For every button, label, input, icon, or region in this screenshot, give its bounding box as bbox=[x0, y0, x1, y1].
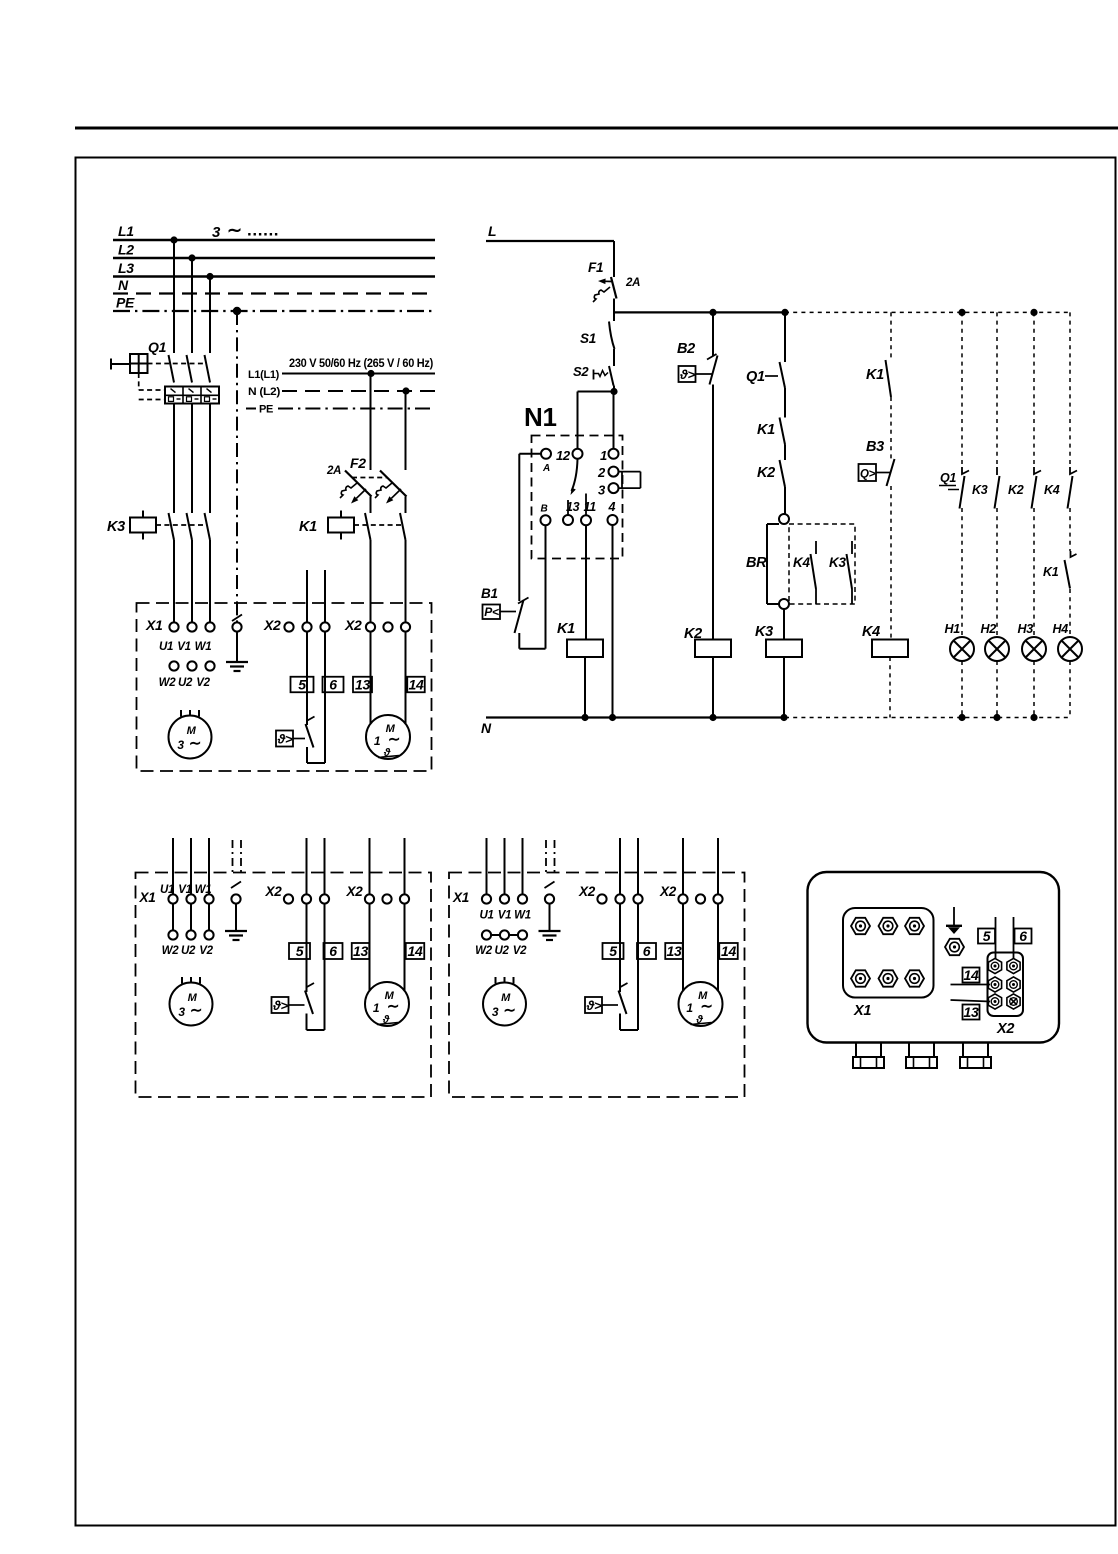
X2b terminals bbox=[365, 894, 374, 903]
svg-text:H2: H2 bbox=[981, 622, 997, 636]
svg-text:13: 13 bbox=[355, 677, 370, 693]
brake BR loop bbox=[746, 524, 779, 604]
motor M 3~ bbox=[483, 977, 526, 1026]
svg-text:5: 5 bbox=[296, 943, 304, 959]
stub wires X2 bbox=[306, 838, 308, 895]
motor connection box (dashed) bbox=[137, 603, 432, 771]
svg-text:U2: U2 bbox=[181, 945, 196, 957]
stub wire X2-5 bbox=[306, 570, 308, 623]
svg-text:∼: ∼ bbox=[700, 998, 712, 1015]
contactor K1 coil+poles bbox=[299, 511, 406, 541]
svg-text:N: N bbox=[481, 720, 492, 736]
svg-text:A: A bbox=[542, 463, 550, 474]
N1 contact 11 stub bbox=[585, 494, 587, 516]
wire pole1 to K3 bbox=[173, 404, 175, 514]
marker 13 bbox=[352, 943, 370, 959]
aux contact Q1 bbox=[746, 362, 785, 388]
node L1(L1) tap bbox=[367, 370, 374, 377]
svg-text:V1: V1 bbox=[498, 910, 511, 922]
wire BR to K3 coil bbox=[783, 609, 785, 640]
svg-text:6: 6 bbox=[1019, 928, 1027, 944]
svg-text:S1: S1 bbox=[580, 331, 596, 346]
X1 PE terminal bbox=[545, 894, 554, 903]
wire pole2 to K3 bbox=[191, 404, 193, 514]
svg-text:N (L2): N (L2) bbox=[248, 386, 281, 398]
svg-text:14: 14 bbox=[964, 967, 979, 983]
svg-text:L3: L3 bbox=[118, 260, 134, 276]
PE isolating tick bbox=[232, 615, 242, 622]
svg-text:K1: K1 bbox=[1043, 565, 1059, 579]
node K1/N bbox=[581, 714, 588, 721]
node H2/N bbox=[993, 714, 1000, 721]
relay coil K4 bbox=[862, 624, 908, 657]
relay coil K3 bbox=[755, 624, 802, 657]
svg-text:H3: H3 bbox=[1018, 622, 1034, 636]
cable gland at 921.5 bbox=[906, 1043, 937, 1069]
svg-text:K3: K3 bbox=[107, 519, 125, 535]
wire to F2 pole2 bbox=[405, 391, 407, 470]
wire S2 to node bbox=[613, 386, 615, 392]
breaker F2 pole 2 bbox=[375, 471, 407, 504]
marker 5 bbox=[603, 943, 624, 959]
svg-text:V2: V2 bbox=[196, 677, 210, 689]
wire S1-S2 bbox=[613, 349, 615, 366]
wire to motor M2 left bbox=[370, 632, 372, 724]
wire S2 to N1:1 bbox=[613, 392, 615, 450]
svg-text:P<: P< bbox=[484, 605, 499, 619]
svg-text:H4: H4 bbox=[1053, 622, 1069, 636]
wire 6 bbox=[1013, 917, 1015, 962]
wire B3 to K4 coil (dashed) bbox=[890, 486, 892, 640]
wire L2 drop bbox=[191, 258, 193, 353]
wire K3 pole2 to X1 bbox=[191, 540, 193, 623]
node L2 tap bbox=[188, 254, 195, 261]
svg-text:V2: V2 bbox=[513, 945, 527, 957]
svg-text:6: 6 bbox=[329, 677, 337, 693]
svg-text:5: 5 bbox=[298, 677, 306, 693]
BR terminal top bbox=[779, 514, 789, 524]
svg-text:X1: X1 bbox=[139, 890, 156, 905]
svg-text:K4: K4 bbox=[862, 624, 880, 640]
svg-text:X1: X1 bbox=[853, 1003, 871, 1019]
motor M 3~ bbox=[170, 977, 213, 1026]
wire L3 drop bbox=[209, 277, 211, 354]
N1 jumper 2-3 bbox=[619, 471, 641, 473]
motor M1 3~ bbox=[169, 710, 212, 759]
wire pole3 to K3 bbox=[209, 404, 211, 514]
wire F1 to rail bbox=[613, 299, 615, 322]
svg-text:W2: W2 bbox=[475, 945, 493, 957]
svg-text:ϑ>: ϑ> bbox=[277, 731, 293, 746]
thermal switch B2 bbox=[677, 341, 718, 385]
wire A down bbox=[518, 454, 520, 601]
svg-text:5: 5 bbox=[983, 928, 991, 944]
X1 terminals bottom row bbox=[482, 930, 491, 939]
switch S1 bbox=[580, 322, 615, 350]
svg-text:13: 13 bbox=[566, 500, 580, 514]
X2 terminal plate bbox=[988, 953, 1024, 1017]
wire B2 to K2 coil bbox=[712, 385, 714, 640]
svg-text:Q>: Q> bbox=[860, 469, 876, 481]
wire K1 pole2 to X2 bbox=[405, 540, 407, 623]
breaker F2 pole 1 bbox=[340, 471, 372, 504]
X2b terminals bbox=[678, 894, 687, 903]
node 4/N bbox=[609, 714, 616, 721]
wire K2 to BR node bbox=[784, 487, 786, 514]
node rail H3 branch bbox=[1030, 309, 1037, 316]
wire X2 thermal left bbox=[619, 904, 621, 992]
svg-text:K1: K1 bbox=[866, 367, 884, 383]
svg-text:ϑ>: ϑ> bbox=[272, 998, 288, 1013]
svg-text:∼: ∼ bbox=[227, 220, 242, 240]
device N1 dashed outline bbox=[532, 436, 623, 559]
svg-text:11: 11 bbox=[584, 500, 597, 514]
svg-text:2A: 2A bbox=[326, 465, 341, 477]
wire 5 bbox=[995, 917, 997, 962]
node rail B2 bbox=[709, 309, 716, 316]
svg-text:B1: B1 bbox=[481, 586, 498, 601]
motor M 1~ bbox=[679, 982, 723, 1026]
svg-text:∼: ∼ bbox=[190, 1002, 202, 1019]
wire K2 coil to N bbox=[712, 657, 714, 718]
wire K3 coil to N bbox=[783, 657, 785, 718]
wire 13 bbox=[951, 1000, 991, 1002]
svg-text:PE: PE bbox=[259, 404, 273, 416]
indicator lamp H3 bbox=[1018, 622, 1047, 661]
pilot contact Q1 bbox=[939, 467, 969, 509]
wire to F2 pole1 bbox=[370, 374, 372, 471]
ground symbol bbox=[549, 904, 551, 931]
svg-text:2: 2 bbox=[597, 465, 606, 480]
stub wires X2b bbox=[682, 838, 684, 895]
svg-text:X2: X2 bbox=[263, 617, 281, 633]
wire PE dash-dot bbox=[246, 408, 256, 410]
X1 terminals top row bbox=[168, 894, 177, 903]
wire K3 pole1 to X1 bbox=[173, 540, 175, 623]
node K3/N bbox=[780, 714, 787, 721]
svg-text:14: 14 bbox=[408, 943, 423, 959]
indicator lamp H4 bbox=[1053, 622, 1083, 661]
wire K1 to B3 (dashed) bbox=[890, 397, 892, 459]
svg-text:K2: K2 bbox=[757, 465, 775, 481]
PE isolating tick bbox=[545, 882, 555, 889]
wire motor left bbox=[369, 904, 371, 991]
svg-text:13: 13 bbox=[353, 943, 368, 959]
X2 mini terminals bbox=[988, 958, 1001, 973]
option contact K3 bbox=[829, 541, 852, 604]
ground symbol bbox=[236, 632, 238, 662]
svg-text:BR: BR bbox=[746, 555, 767, 571]
svg-text:S2: S2 bbox=[573, 364, 589, 379]
contactor K3 coil+poles bbox=[107, 511, 210, 541]
svg-text:U1: U1 bbox=[479, 910, 493, 922]
bus L2 wire bbox=[113, 257, 435, 259]
svg-text:13: 13 bbox=[964, 1004, 979, 1020]
wire K1 pole1 to X2 bbox=[370, 540, 372, 623]
ground stud terminal bbox=[945, 939, 964, 955]
svg-text:1: 1 bbox=[686, 1001, 693, 1015]
wire Q1-K1 bbox=[784, 388, 786, 418]
svg-text:X2: X2 bbox=[344, 617, 362, 633]
marker 6 bbox=[323, 677, 344, 693]
wire H1 to N (dashed) bbox=[961, 661, 963, 718]
top horizontal rule bbox=[75, 127, 1118, 130]
N1 terminal A bbox=[541, 449, 551, 459]
svg-text:W1: W1 bbox=[514, 910, 531, 922]
svg-text:4: 4 bbox=[608, 500, 616, 514]
wire N1:4 to N bbox=[612, 525, 614, 718]
pilot contact K4 bbox=[1044, 467, 1077, 509]
wire L1 drop bbox=[173, 240, 175, 353]
wire N dashed bbox=[785, 717, 1070, 719]
svg-text:B: B bbox=[541, 504, 548, 515]
wire X2 thermal left bbox=[306, 904, 308, 992]
svg-text:ϑ>: ϑ> bbox=[586, 998, 602, 1013]
wire K1-K2 bbox=[784, 445, 786, 461]
relay coil K1 bbox=[557, 621, 603, 657]
motor M2 1~ bbox=[366, 715, 410, 759]
control rail dashed bbox=[785, 311, 1071, 313]
thermal contact (ϑ) bbox=[272, 983, 315, 1014]
svg-text:1: 1 bbox=[374, 734, 381, 748]
thermal contact (ϑ) bbox=[276, 717, 315, 748]
node S2 bbox=[610, 388, 617, 395]
stub wires X2 bbox=[619, 838, 621, 895]
marker 6 bbox=[324, 943, 343, 959]
svg-text:X2: X2 bbox=[578, 884, 596, 899]
wire thermal loop bbox=[306, 1014, 308, 1031]
svg-text:2A: 2A bbox=[625, 277, 640, 289]
lamp branch risers (dashed) bbox=[961, 312, 963, 467]
disconnect switch Q1 bbox=[111, 339, 210, 400]
wire 14 bbox=[951, 984, 991, 986]
svg-text:X2: X2 bbox=[346, 884, 364, 899]
marker 14 bbox=[963, 968, 980, 983]
svg-text:∼: ∼ bbox=[503, 1002, 515, 1019]
wire motor left bbox=[682, 904, 684, 991]
svg-text:K3: K3 bbox=[829, 555, 846, 570]
svg-text:Q1: Q1 bbox=[148, 339, 167, 355]
svg-text:B2: B2 bbox=[677, 341, 695, 357]
pilot contact K2 bbox=[1008, 467, 1041, 509]
svg-text:K2: K2 bbox=[1008, 483, 1024, 497]
pilot contact K1 bbox=[1043, 551, 1077, 589]
X1 terminals top row bbox=[482, 894, 491, 903]
marker 13 bbox=[963, 1005, 980, 1020]
wire motor right bbox=[717, 904, 719, 991]
svg-text:1: 1 bbox=[600, 448, 607, 463]
node rail H1 branch bbox=[958, 309, 965, 316]
svg-text:K1: K1 bbox=[557, 621, 575, 637]
indicator lamp H2 bbox=[981, 622, 1010, 661]
svg-text:L1(L1): L1(L1) bbox=[248, 369, 280, 381]
wire H3 to N (dashed) bbox=[1033, 661, 1035, 718]
wire A lead bbox=[519, 453, 541, 455]
svg-text:U1: U1 bbox=[159, 641, 173, 653]
marker 13 bbox=[665, 943, 683, 959]
wire PE drop (dash-dot) bbox=[236, 311, 238, 622]
svg-text:∼: ∼ bbox=[189, 735, 201, 752]
svg-text:F2: F2 bbox=[350, 455, 366, 471]
node H3/N bbox=[1030, 714, 1037, 721]
svg-text:B3: B3 bbox=[866, 439, 884, 455]
wire rail to Q1 aux bbox=[784, 312, 786, 362]
terminal strip / overload block bbox=[165, 387, 219, 404]
aux contact K2 bbox=[757, 460, 785, 487]
svg-text:W1: W1 bbox=[195, 641, 212, 653]
node K2/N bbox=[709, 714, 716, 721]
jumper links (vertical) bbox=[172, 904, 174, 931]
svg-text:K1: K1 bbox=[757, 422, 775, 438]
wire K3 pole3 to X1 bbox=[209, 540, 211, 623]
option contact K4 bbox=[793, 541, 816, 604]
wire rail to B2 bbox=[712, 312, 714, 356]
svg-text:Q1: Q1 bbox=[746, 369, 765, 385]
svg-text:K3: K3 bbox=[972, 483, 988, 497]
svg-text:W2: W2 bbox=[162, 945, 180, 957]
N1 float contact 12-13 bbox=[572, 459, 578, 491]
svg-text:ϑ>: ϑ> bbox=[679, 367, 695, 382]
marker 6 bbox=[1015, 929, 1032, 944]
wire N(L2) dashed bbox=[282, 390, 435, 392]
wire N solid bbox=[486, 716, 785, 718]
stub PE (double dash-dot) bbox=[545, 840, 547, 874]
pushbutton S2 bbox=[573, 364, 614, 386]
svg-text:PE: PE bbox=[116, 295, 135, 311]
svg-text:X2: X2 bbox=[659, 884, 677, 899]
node L3 tap bbox=[206, 273, 213, 280]
node H1/N bbox=[958, 714, 965, 721]
ground symbol bbox=[235, 904, 237, 931]
stub wires phases bbox=[172, 838, 174, 895]
indicator lamp H1 bbox=[945, 622, 975, 661]
junction box outline bbox=[808, 872, 1060, 1043]
wire thermal loop bbox=[306, 747, 308, 763]
wire F2 pole1 to K1 bbox=[370, 497, 372, 514]
svg-text:V2: V2 bbox=[199, 945, 213, 957]
cable gland at 975.5 bbox=[960, 1043, 991, 1069]
X1 PE terminal bbox=[232, 622, 241, 631]
X1 terminals bottom row bbox=[168, 930, 177, 939]
svg-text:K3: K3 bbox=[755, 624, 773, 640]
svg-text:H1: H1 bbox=[945, 622, 961, 636]
fuse/breaker F1 bbox=[588, 260, 617, 302]
X2 terminals bbox=[284, 622, 293, 631]
wire N1:11 to K1 coil bbox=[585, 525, 587, 640]
wire to motor M2 right bbox=[405, 632, 407, 724]
wire X2-5 down bbox=[306, 632, 308, 725]
jumper links (horizontal) bbox=[491, 934, 500, 936]
svg-text:3: 3 bbox=[177, 738, 184, 752]
temperature switch B3 bbox=[859, 439, 895, 486]
motor connection box variant 1 (dashed) bbox=[136, 873, 432, 1098]
bus L1 wire bbox=[113, 239, 435, 241]
lamp branch middles (dashed) bbox=[961, 508, 963, 637]
wire K4 coil to N (dashed) bbox=[889, 657, 891, 718]
wire K1 coil to N bbox=[584, 657, 586, 718]
svg-text:3: 3 bbox=[492, 1005, 499, 1019]
svg-text:K1: K1 bbox=[299, 519, 317, 535]
marker 5 bbox=[978, 929, 995, 944]
svg-text:K4: K4 bbox=[1044, 483, 1060, 497]
aux contact K1 bbox=[866, 360, 891, 397]
wire L1(L1) bbox=[282, 373, 435, 375]
svg-text:∼: ∼ bbox=[388, 731, 400, 748]
thermal contact (ϑ) bbox=[585, 983, 628, 1014]
svg-text:230 V 50/60 Hz (265 V / 60 Hz: 230 V 50/60 Hz (265 V / 60 Hz) bbox=[289, 358, 433, 370]
svg-text:1: 1 bbox=[373, 1001, 380, 1015]
svg-text:U2: U2 bbox=[494, 945, 509, 957]
marker 5 bbox=[289, 943, 310, 959]
bus L3 wire bbox=[113, 275, 435, 277]
svg-text:14: 14 bbox=[721, 943, 736, 959]
wire H4 to N (dashed) bbox=[1069, 661, 1071, 718]
svg-text:6: 6 bbox=[329, 943, 337, 959]
X1 PE terminal bbox=[231, 894, 240, 903]
wire B1 to corner bbox=[518, 633, 520, 649]
PE isolating tick bbox=[231, 882, 241, 889]
svg-text:X1: X1 bbox=[145, 617, 163, 633]
stub wires phases bbox=[486, 838, 488, 895]
X2 terminals bbox=[597, 894, 606, 903]
svg-text:K4: K4 bbox=[793, 555, 810, 570]
node PE tap bbox=[233, 307, 241, 315]
relay coil K2 bbox=[684, 626, 731, 657]
svg-text:6: 6 bbox=[643, 943, 651, 959]
svg-text:U2: U2 bbox=[178, 677, 193, 689]
svg-text:N: N bbox=[118, 277, 129, 293]
node N(L2) tap bbox=[402, 387, 409, 394]
svg-text:X1: X1 bbox=[452, 890, 469, 905]
svg-text:3: 3 bbox=[178, 1005, 185, 1019]
svg-text:L: L bbox=[488, 223, 496, 239]
marker 14 bbox=[406, 943, 425, 959]
stub PE (double dash-dot) bbox=[232, 840, 234, 874]
pilot contact K3 bbox=[972, 467, 1000, 509]
pressure switch B1 bbox=[481, 586, 529, 633]
svg-text:X2: X2 bbox=[996, 1021, 1014, 1037]
wire thermal loop bbox=[619, 1014, 621, 1031]
svg-text:L2: L2 bbox=[118, 242, 134, 258]
wire motor right bbox=[404, 904, 406, 991]
marker 13 bbox=[353, 677, 372, 693]
cable gland at 868.5 bbox=[853, 1043, 884, 1069]
marker 14 bbox=[407, 677, 425, 693]
bus N wire (dashed) bbox=[113, 292, 435, 294]
motor M 1~ bbox=[365, 982, 409, 1026]
motor connection box variant 2 (dashed) bbox=[449, 873, 745, 1098]
svg-text:Q1: Q1 bbox=[940, 471, 956, 485]
svg-text:L1: L1 bbox=[118, 223, 134, 239]
svg-text:14: 14 bbox=[409, 677, 424, 693]
BR terminal bottom bbox=[779, 599, 789, 609]
breaker F2 linkage bbox=[352, 477, 387, 479]
X1 stud terminals bbox=[851, 918, 870, 934]
marker 14 bbox=[719, 943, 738, 959]
marker 5 bbox=[291, 677, 314, 693]
svg-text:∼: ∼ bbox=[387, 998, 399, 1015]
ground stud symbol bbox=[946, 907, 962, 934]
BR option box (dashed) bbox=[789, 524, 855, 604]
X1 terminal plate bbox=[843, 908, 934, 998]
bus PE wire (dash-dot) bbox=[113, 310, 435, 312]
node L1 tap bbox=[170, 236, 177, 243]
svg-text:X2: X2 bbox=[265, 884, 283, 899]
svg-text:F1: F1 bbox=[588, 260, 603, 275]
stub wire X2-6 bbox=[324, 570, 326, 623]
X1 terminals W2 U2 V2 bbox=[169, 661, 178, 670]
svg-text:W2: W2 bbox=[159, 677, 177, 689]
